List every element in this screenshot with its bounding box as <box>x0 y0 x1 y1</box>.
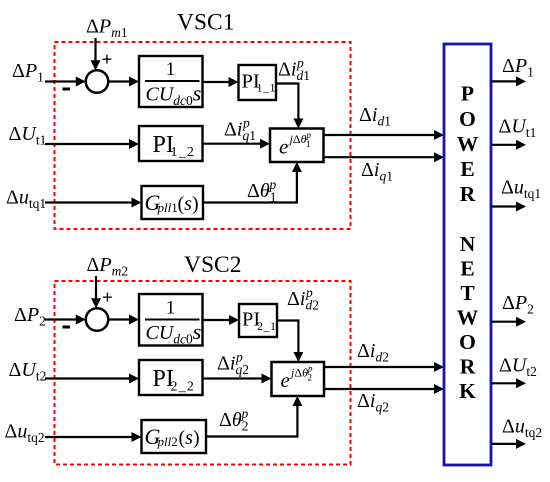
label di_q1 <box>361 159 393 184</box>
minus sign 2 <box>63 326 71 329</box>
label dUt1 output <box>499 116 537 141</box>
svg-text:E: E <box>460 257 474 281</box>
svg-text:1_2: 1_2 <box>171 145 194 160</box>
svg-text:P: P <box>461 82 474 106</box>
title VSC2 <box>184 252 241 278</box>
plus sign 1 <box>102 50 113 71</box>
svg-text:O: O <box>459 107 476 131</box>
label dU_t2 <box>9 359 47 384</box>
wire rotation1 q-output <box>324 152 445 162</box>
label dP1 output <box>502 55 534 80</box>
label dP1 <box>12 60 44 85</box>
power network box <box>444 44 491 465</box>
label du_tq1 <box>6 187 46 212</box>
svg-text:pll2: pll2 <box>157 434 178 449</box>
svg-text:2_2: 2_2 <box>171 380 194 395</box>
wire dP1 output arrow <box>491 76 526 86</box>
title VSC1 <box>177 10 234 36</box>
wire dP1 input <box>45 77 86 87</box>
wire PI1_2 to rotation1 <box>203 139 271 149</box>
svg-text:pll1: pll1 <box>157 200 178 215</box>
svg-text:N: N <box>460 232 476 256</box>
rotation block e^jdtheta1 <box>270 129 324 163</box>
svg-text:VSC2: VSC2 <box>184 252 241 278</box>
svg-text:W: W <box>457 306 479 330</box>
label dUt2 output <box>499 355 537 380</box>
svg-text:E: E <box>460 157 474 181</box>
power network label NETWORK <box>457 232 479 403</box>
svg-text:1_1: 1_1 <box>257 81 276 95</box>
label dU_t1 <box>9 123 47 148</box>
block PI2_1 <box>239 304 277 337</box>
block Gpll2 <box>142 420 207 453</box>
svg-text:O: O <box>459 330 476 354</box>
label di_q2 <box>357 390 389 415</box>
wire PI2_1 to rotation2 <box>277 321 303 363</box>
svg-text:e: e <box>281 368 290 392</box>
integrator block 1/CUdc0s VSC2 <box>139 294 203 347</box>
wire rotation2 q-output <box>324 384 444 394</box>
svg-text:(s): (s) <box>178 193 199 215</box>
label dutq1 output <box>501 177 541 202</box>
wire rotation1 d-output <box>324 130 445 140</box>
label dutq2 output <box>502 416 542 441</box>
label di_d1 <box>359 104 391 129</box>
VSC2 dashed boundary <box>55 281 351 465</box>
wire dP2 input <box>45 315 86 325</box>
wire dPm1 vertical <box>91 38 101 70</box>
wire sum2 to integrator2 <box>108 315 139 325</box>
svg-text:Δθ1p: Δθ1p <box>247 177 276 205</box>
svg-text:(s): (s) <box>179 427 200 449</box>
wire rotation2 d-output <box>324 362 444 372</box>
label du_tq2 <box>5 421 45 446</box>
block PI1_2 <box>139 126 203 161</box>
summing junction 2 <box>86 308 109 331</box>
svg-text:+: + <box>102 50 113 71</box>
integrator block 1/CUdc0s VSC1 <box>139 56 203 108</box>
svg-text:+: + <box>102 288 113 309</box>
label dtheta1^p <box>247 177 276 205</box>
label di_q1^p <box>224 116 256 144</box>
svg-text:e: e <box>279 135 288 159</box>
label dP2 output <box>502 292 534 317</box>
wire dUt1 to PI1_2 <box>45 139 139 149</box>
wire PI2_2 to rotation2 <box>203 374 272 384</box>
wire dPm2 vertical <box>91 276 101 308</box>
label di_d2^p <box>287 285 319 313</box>
wire PI1_1 to rotation1 <box>276 84 303 129</box>
wire integrator2 to PI2_1 <box>203 315 240 325</box>
label di_d2 <box>357 340 389 365</box>
power network label POWER <box>457 82 479 206</box>
svg-text:1: 1 <box>166 298 176 319</box>
block Gpll1 <box>142 186 204 219</box>
label di_d1^p <box>278 56 310 84</box>
wire sum1 to integrator1 <box>108 77 139 87</box>
wire dutq2 output arrow <box>491 439 526 449</box>
label dtheta2^p <box>219 406 248 434</box>
svg-text:VSC1: VSC1 <box>177 10 234 36</box>
svg-text:K: K <box>459 379 476 403</box>
summing junction 1 <box>86 70 109 93</box>
block PI2_2 <box>139 360 203 395</box>
svg-text:R: R <box>460 355 476 379</box>
svg-text:W: W <box>457 132 479 156</box>
label di_q2^p <box>217 350 249 378</box>
wire dUt1 output arrow <box>491 140 526 150</box>
label dP2 <box>14 304 46 329</box>
svg-text:1: 1 <box>166 59 176 80</box>
wire integrator1 to PI1_1 <box>203 77 239 87</box>
wire Gpll1 to rotation1 bottom <box>203 162 302 204</box>
VSC1 dashed boundary <box>55 42 351 229</box>
wire dP2 output arrow <box>491 317 526 327</box>
wire dutq1 output arrow <box>491 202 526 212</box>
svg-text:Δθ2p: Δθ2p <box>219 406 248 434</box>
wire Gpll2 to rotation2 bottom <box>206 396 302 438</box>
block PI1_1 <box>239 65 277 100</box>
label dPm2 <box>87 254 129 279</box>
wire dutq2 to Gpll2 <box>45 432 142 442</box>
wire dUt2 to PI2_2 <box>45 374 139 384</box>
plus sign 2 <box>102 288 113 309</box>
label dPm1 <box>86 16 128 41</box>
wire dUt2 output arrow <box>491 378 526 388</box>
svg-text:R: R <box>460 182 476 206</box>
minus sign 1 <box>63 88 71 91</box>
rotation block e^jdtheta2 <box>272 362 325 396</box>
svg-text:T: T <box>460 281 475 305</box>
svg-text:2_1: 2_1 <box>257 319 276 333</box>
wire dutq1 to Gpll1 <box>45 198 142 208</box>
